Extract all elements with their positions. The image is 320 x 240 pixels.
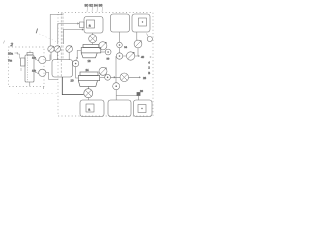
pump P3 (slashed circle): [134, 40, 142, 48]
wire D3 to riser with arrow: [111, 77, 117, 79]
valve V5 (circle with cross below controller A): [89, 33, 97, 45]
svg-text:15b: 15b: [32, 70, 37, 73]
wire C down to pump P3: [137, 32, 138, 40]
sensor D3 (small circle with dot on branch2): [105, 74, 111, 80]
wire tee to box E: [116, 96, 138, 101]
sensor D1 (small circle with dot): [117, 42, 123, 48]
wire arrow 20a: [15, 52, 19, 54]
wire canister inner line: [27, 55, 29, 82]
controller F (bottom left box): [80, 100, 104, 117]
wire stack F0 left outlet down to pump P1: [77, 51, 81, 59]
svg-text:15a: 15a: [32, 57, 37, 60]
component inner square a1: [87, 20, 95, 28]
svg-text:90 92 94 96: 90 92 94 96: [85, 3, 103, 7]
wire dotted leader from label 1 to enclosure: [40, 34, 58, 42]
component motor M2 (lower circle): [39, 69, 46, 76]
wire stack F0 right outlet: [101, 51, 105, 53]
valve V4 (circle with cross, below filter): [84, 86, 93, 97]
component motor M1 (upper circle): [39, 56, 46, 63]
component filter F1 (layered unit): [78, 72, 99, 86]
controller E (bottom right box): [134, 100, 153, 117]
wire pump P1 down to filter inlet: [76, 67, 79, 78]
node dot in c1: [142, 21, 143, 22]
svg-text:40: 40: [141, 55, 145, 59]
wire branch1 arrow: [138, 55, 139, 57]
svg-text:36: 36: [140, 90, 143, 93]
svg-text:16: 16: [88, 59, 92, 63]
wire W3 control line to controller A upper input: [63, 29, 83, 44]
svg-text:34: 34: [124, 46, 127, 49]
wire valve V4 to box F: [87, 98, 89, 100]
controller D (bottom middle box): [108, 100, 131, 117]
pump P5 (crossed circle on branch2): [120, 73, 129, 82]
node left enclosure (dashed boundary box 2): [9, 47, 45, 87]
wire vessel bottom outlet: [62, 77, 83, 95]
wire corner tick below left box: [43, 87, 45, 90]
component side block on canister: [21, 58, 26, 66]
sensor D0 (small circle with dot): [105, 49, 111, 55]
wire W1 riser to valve V1: [50, 15, 62, 46]
wire cap stem: [29, 51, 31, 53]
wire M1 to valve V1: [46, 55, 50, 61]
wire lance line 2: [62, 13, 64, 59]
node label 1 (figure pointer): [36, 29, 37, 34]
svg-text:10: 10: [71, 78, 75, 82]
wire branch2 arrow: [139, 77, 140, 79]
svg-text:a: a: [88, 108, 90, 112]
wire M2 step to vessel bottom: [46, 73, 58, 80]
svg-text:24: 24: [86, 68, 90, 72]
wire D1 down to branch1: [119, 48, 121, 53]
wire dotted link below left box: [18, 93, 57, 95]
wire filter outlet to D3: [100, 76, 105, 78]
wire P3 down to branch1: [137, 48, 139, 56]
controller B (top middle box): [111, 14, 130, 32]
svg-text:26: 26: [143, 76, 147, 80]
wire small bracket: [20, 68, 22, 71]
wire canister bottom stem: [29, 82, 31, 86]
wire V1 V2 V3 into vessel top: [51, 52, 69, 60]
sensor S2 (circle with dot): [116, 53, 122, 59]
valve V2 (slashed circle): [54, 46, 60, 52]
component stack filter F0 (upper layered unit): [81, 45, 101, 58]
wire S3 down to box D: [115, 90, 117, 100]
valve V3 (slashed circle): [66, 46, 73, 53]
wire B down: [119, 32, 121, 42]
wire branch1 to branch2 left riser: [115, 56, 117, 83]
pump P4 (slashed circle on branch1): [126, 52, 134, 60]
controller C (top right box): [132, 14, 150, 32]
component junction square J1: [137, 92, 141, 96]
svg-text:2: 2: [10, 42, 14, 47]
component inner square c1: [139, 18, 147, 26]
component canister K1 (left enclosure vessel): [25, 55, 34, 82]
wire squiggle to motor M1: [35, 59, 39, 61]
wire leader ticks from top labels: [87, 7, 103, 12]
svg-text:30: 30: [107, 57, 110, 60]
component input tab on controller A: [80, 22, 85, 28]
svg-text:20a: 20a: [8, 51, 13, 55]
wire 20a arrow to side block: [17, 54, 20, 59]
node stray mark: [4, 41, 5, 44]
wire lance dash-dot line into vessel: [60, 13, 62, 77]
controller A (top left box with inner square): [84, 17, 103, 34]
pump P1 (small circle with arrow by vessel): [72, 58, 78, 67]
svg-text:2: 2: [148, 66, 150, 70]
sensor S3 (circle with dot on riser): [113, 83, 120, 90]
svg-text:7m: 7m: [8, 58, 13, 62]
pump P2 (slashed circle): [99, 42, 107, 50]
node dot in e1: [141, 108, 142, 109]
node label 4 (right margin): [150, 56, 152, 58]
svg-text:B: B: [148, 71, 150, 75]
svg-text:a: a: [89, 24, 91, 28]
component canister cap: [27, 53, 33, 56]
component inner square e1: [138, 105, 146, 113]
node main enclosure (dashed boundary box 1): [58, 13, 153, 117]
valve V1 (slashed circle): [48, 46, 54, 52]
sensor D2 (small circle top right): [147, 34, 153, 42]
wire W2 control line to controller A lower input: [58, 23, 79, 44]
wire squiggle to motor M2: [35, 72, 39, 74]
wire branch1 horizontal: [116, 55, 140, 57]
wire branch2 horizontal: [116, 76, 141, 78]
pump P6 (slashed circle above branch2): [99, 67, 107, 75]
component inner square f1: [86, 104, 94, 112]
component reactor vessel T1: [52, 60, 73, 78]
svg-text:4: 4: [148, 61, 150, 65]
